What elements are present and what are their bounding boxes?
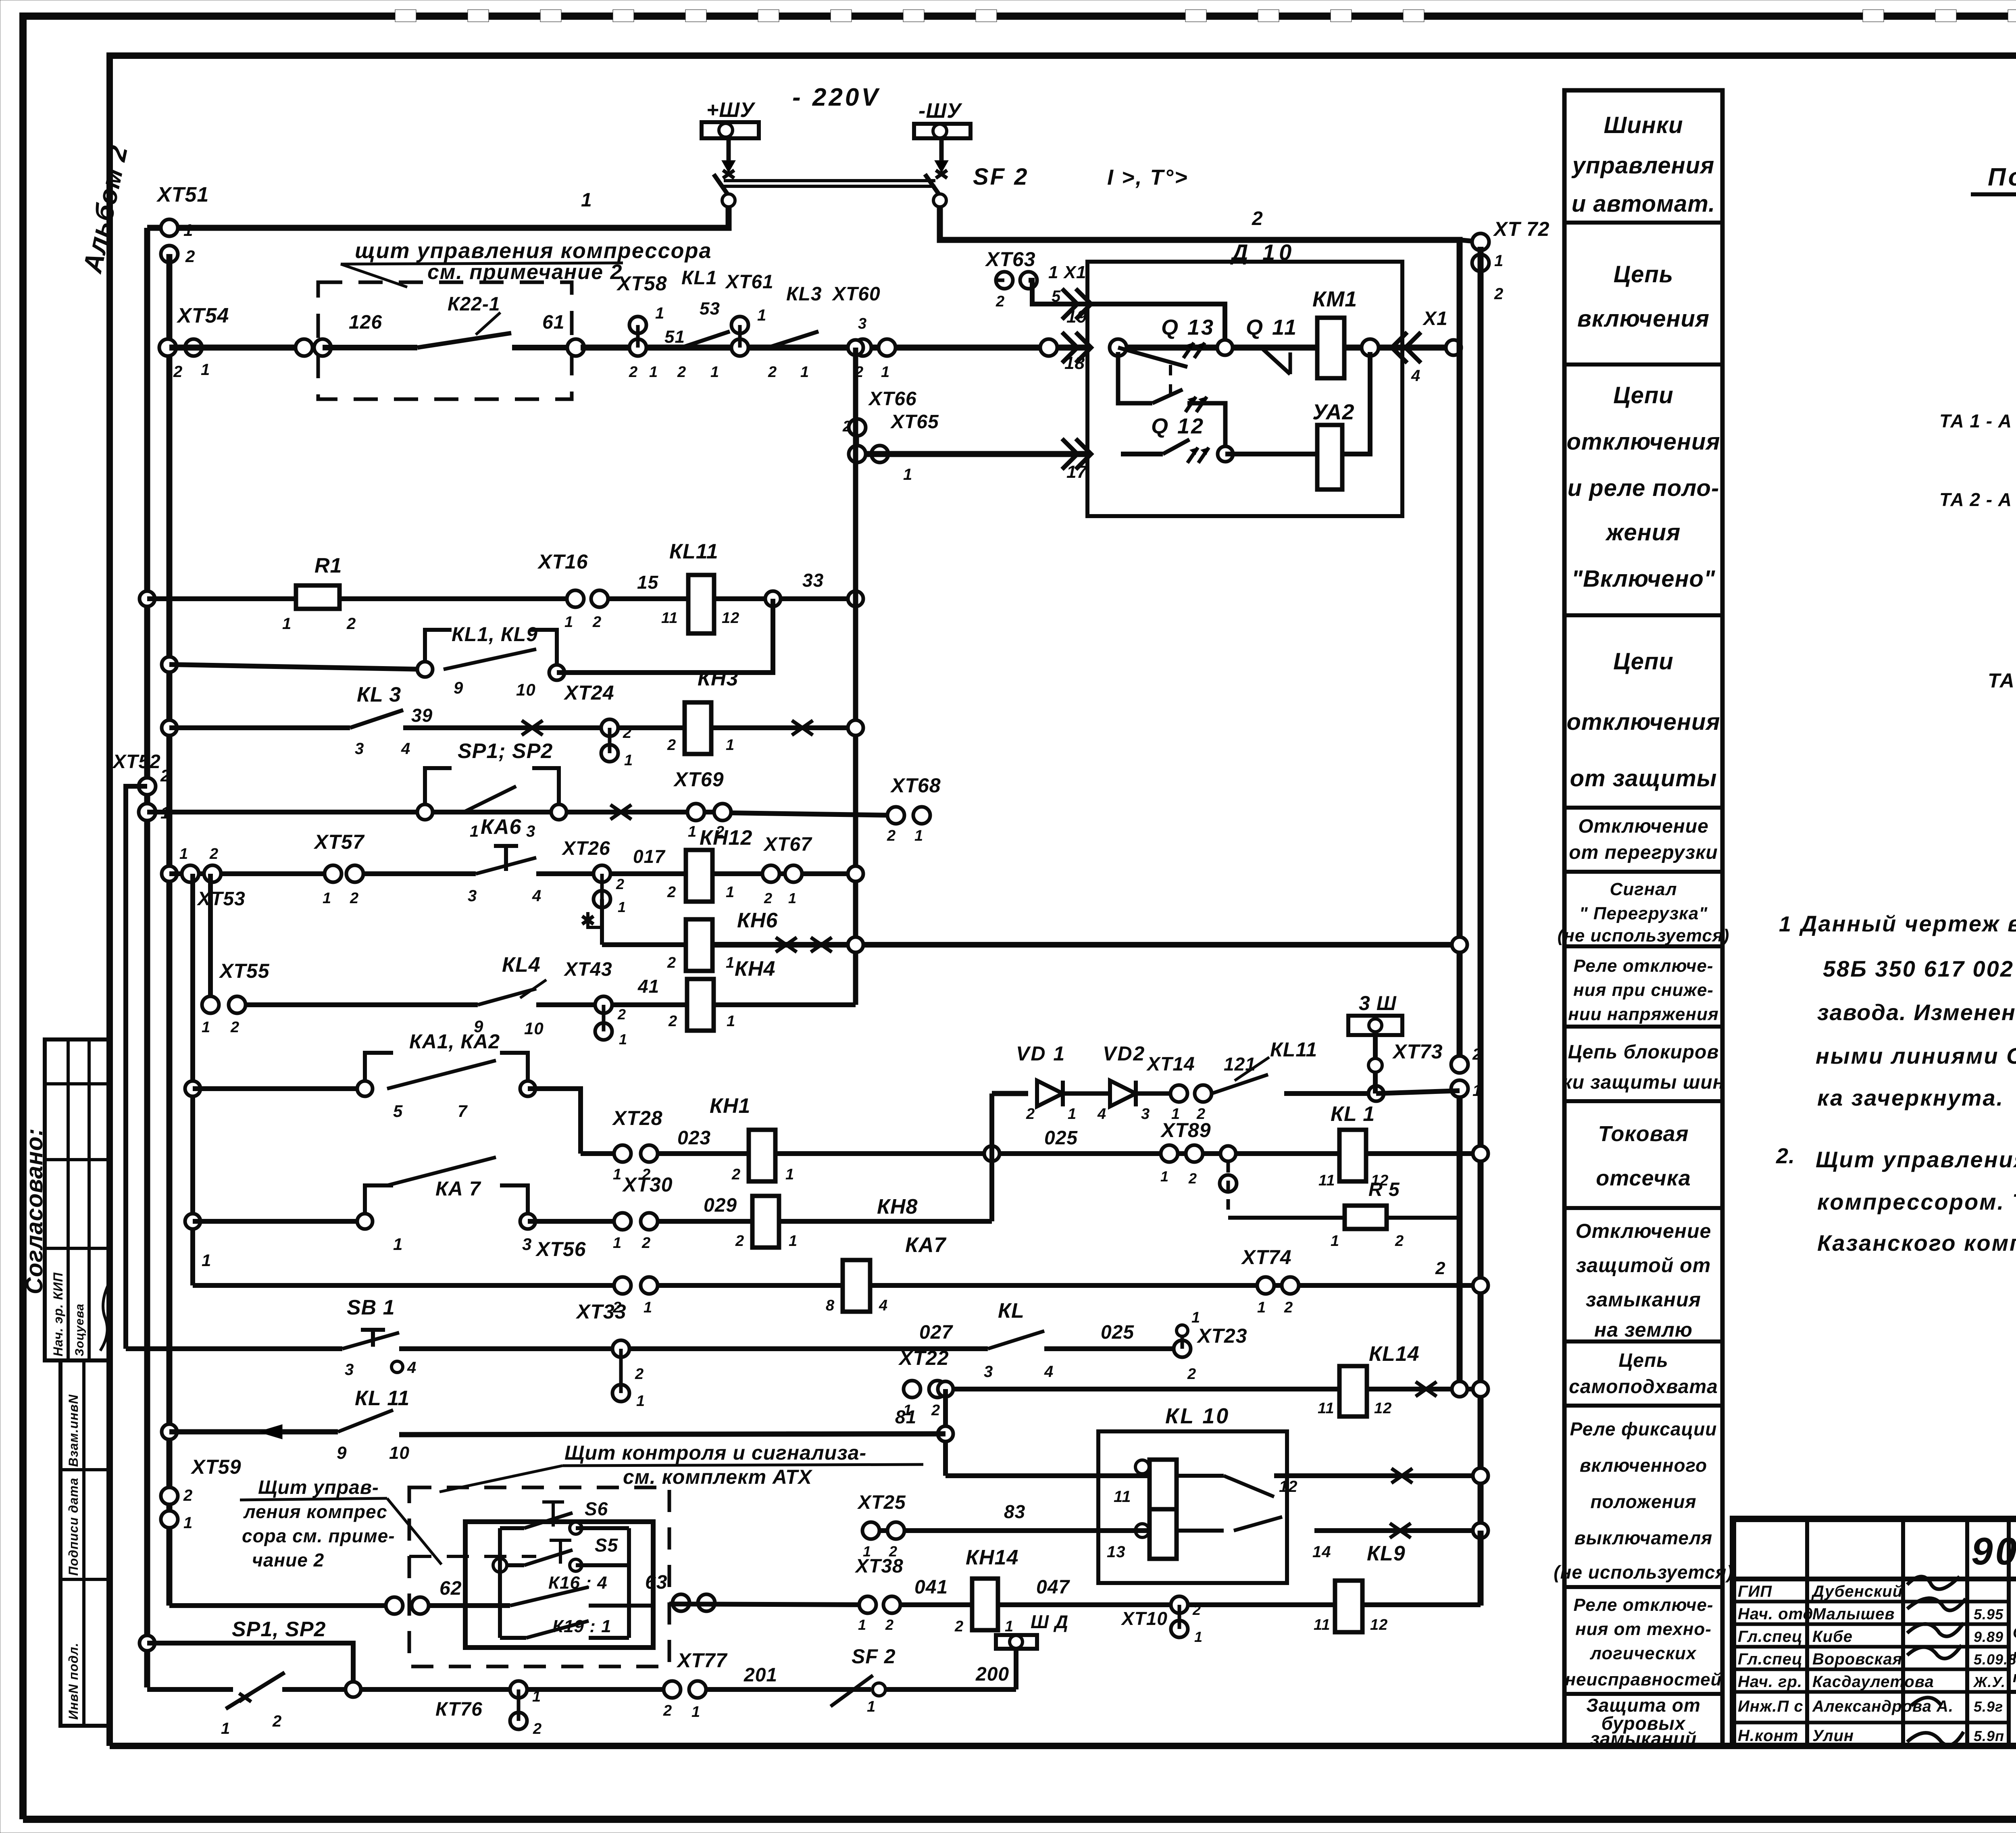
- svg-text:2: 2: [1026, 1106, 1035, 1123]
- svg-text:сора см. приме-: сора см. приме-: [242, 1525, 395, 1546]
- svg-text:1: 1: [1779, 912, 1791, 936]
- svg-text:Цепи: Цепи: [1613, 648, 1673, 675]
- svg-text:1: 1: [202, 1019, 210, 1036]
- svg-text:2: 2: [842, 418, 852, 435]
- svg-text:Цепи: Цепи: [1613, 382, 1673, 408]
- svg-text:R1: R1: [314, 554, 342, 577]
- wire loop row: [169, 664, 425, 669]
- svg-text:Кибе: Кибе: [1812, 1628, 1853, 1646]
- svg-text:81: 81: [895, 1406, 916, 1427]
- bus +ШУ box: [702, 122, 759, 138]
- svg-text:11: 11: [1114, 1488, 1131, 1506]
- svg-text:1: 1: [613, 1166, 622, 1183]
- wire УА2 to X1 row: [1225, 452, 1317, 456]
- svg-text:1: 1: [789, 1233, 798, 1250]
- svg-text:4: 4: [1411, 367, 1420, 385]
- wire to XT28 step: [528, 1089, 581, 1154]
- bus L1 (x=365): [144, 228, 150, 1687]
- svg-text:SF 2: SF 2: [973, 164, 1029, 190]
- svg-text:ХТ56: ХТ56: [535, 1238, 586, 1260]
- drop VD/KH rows vertical: [989, 1094, 994, 1221]
- bottom wire row: [147, 1687, 233, 1692]
- svg-text:КН4: КН4: [735, 957, 775, 981]
- svg-text:от защиты: от защиты: [1570, 765, 1717, 792]
- wire KH1 row to bus B: [775, 1151, 1481, 1156]
- svg-text:3: 3: [468, 887, 477, 905]
- svg-text:17: 17: [1066, 462, 1087, 482]
- svg-text:2: 2: [1187, 1366, 1196, 1383]
- svg-text:отключения: отключения: [1566, 709, 1720, 735]
- junction SP1,SP2 bottom: [140, 1635, 155, 1651]
- svg-text:1: 1: [1194, 1629, 1203, 1645]
- terminal 63: [673, 1594, 689, 1611]
- svg-text:КА1, КА2: КА1, КА2: [409, 1030, 500, 1053]
- svg-text:1: 1: [1171, 1106, 1180, 1123]
- svg-text:ХТ68: ХТ68: [890, 774, 941, 797]
- breaker SF2 right blade: [925, 174, 940, 196]
- svg-text:12: 12: [1370, 1616, 1388, 1633]
- loop wire to KL11 row: [557, 599, 773, 673]
- svg-text:12: 12: [1374, 1400, 1392, 1417]
- auxiliary Q13 lower pole: [1118, 352, 1152, 403]
- svg-text:КА7: КА7: [905, 1233, 947, 1257]
- svg-text:1: 1: [1160, 1168, 1169, 1185]
- svg-text:3: 3: [522, 1235, 532, 1254]
- wire 19 into connector X1:5: [1029, 280, 1225, 340]
- solid box S contacts: [465, 1522, 653, 1648]
- svg-text:3: 3: [1141, 1106, 1150, 1123]
- svg-text:3: 3: [526, 823, 535, 840]
- svg-text:КН12: КН12: [700, 826, 752, 850]
- svg-text:10: 10: [524, 1019, 544, 1038]
- svg-text:положения: положения: [1590, 1491, 1696, 1512]
- KL10 upper contact row: [946, 1473, 1150, 1478]
- svg-text:Цепь: Цепь: [1614, 261, 1673, 287]
- svg-text:отключения: отключения: [1566, 429, 1720, 455]
- svg-text:2: 2: [1196, 1106, 1206, 1123]
- junction bus M1 top: [848, 340, 863, 355]
- svg-text:Сигнал: Сигнал: [1610, 879, 1677, 899]
- svg-text:51: 51: [664, 327, 685, 347]
- svg-text:1: 1: [726, 884, 735, 901]
- svg-text:ХТ33: ХТ33: [575, 1300, 627, 1323]
- svg-text:ки защиты шин: ки защиты шин: [1562, 1072, 1724, 1093]
- svg-text:Шинки: Шинки: [1604, 112, 1683, 138]
- left stamp lower box: [60, 1360, 110, 1726]
- title block horizontals: [1733, 1577, 2016, 1581]
- svg-text:Инж.П с: Инж.П с: [1738, 1698, 1804, 1715]
- svg-text:Реле отключе-: Реле отключе-: [1573, 1595, 1713, 1615]
- svg-text:61: 61: [542, 312, 564, 333]
- svg-text:1: 1: [618, 899, 626, 915]
- function column frame: [1564, 90, 1722, 1746]
- svg-text:ХТ65: ХТ65: [890, 411, 939, 433]
- svg-text:ХТ63: ХТ63: [985, 248, 1036, 271]
- svg-text:14: 14: [1312, 1543, 1331, 1561]
- svg-text:ХТ74: ХТ74: [1241, 1246, 1292, 1269]
- svg-text:2: 2: [731, 1166, 741, 1183]
- svg-text:11: 11: [1318, 1172, 1335, 1189]
- terminal 62: [386, 1597, 403, 1614]
- svg-text:завода. Изменения типовой схем: завода. Изменения типовой схемы показаны…: [1817, 1000, 2016, 1025]
- svg-text:3 Ш: 3 Ш: [1359, 992, 1397, 1014]
- svg-text:КН1: КН1: [710, 1094, 750, 1118]
- svg-text:ХТ51: ХТ51: [156, 183, 209, 206]
- wire KH6 to bus A: [712, 942, 1460, 948]
- svg-text:ХТ55: ХТ55: [219, 960, 270, 982]
- svg-text:Воровская: Воровская: [1812, 1650, 1902, 1668]
- svg-text:1: 1: [323, 890, 331, 907]
- svg-text:1: 1: [788, 890, 797, 906]
- svg-text:4: 4: [532, 887, 541, 905]
- svg-text:см. комплект АТХ: см. комплект АТХ: [623, 1466, 813, 1488]
- svg-text:2: 2: [668, 1013, 677, 1030]
- svg-text:ХТ59: ХТ59: [190, 1456, 242, 1478]
- svg-text:1: 1: [726, 737, 735, 754]
- svg-text:"Включено": "Включено": [1572, 566, 1716, 592]
- svg-text:ХТ58: ХТ58: [616, 272, 667, 295]
- svg-text:121: 121: [1224, 1054, 1256, 1075]
- wire 2: [940, 207, 1460, 282]
- wire SP1,SP2 bottom: [147, 1643, 353, 1689]
- svg-text:1: 1: [757, 306, 766, 324]
- svg-text:Поясняющая схема: Поясняющая схема: [1988, 163, 2016, 191]
- svg-text:1: 1: [710, 364, 719, 381]
- wire XT26 stub to KH6 row: [600, 899, 604, 945]
- svg-text:ХТ38: ХТ38: [854, 1556, 904, 1577]
- svg-text:Улин: Улин: [1812, 1727, 1854, 1745]
- svg-text:КL 11: КL 11: [355, 1387, 410, 1410]
- svg-text:ХТ67: ХТ67: [763, 834, 812, 855]
- svg-text:Ш Д: Ш Д: [1031, 1611, 1068, 1632]
- svg-text:+ШУ: +ШУ: [706, 98, 756, 122]
- svg-text:ХТ24: ХТ24: [563, 681, 614, 704]
- svg-text:2: 2: [667, 954, 676, 971]
- svg-text:126: 126: [349, 312, 382, 333]
- svg-text:и реле поло-: и реле поло-: [1568, 475, 1720, 501]
- svg-text:025: 025: [1101, 1322, 1134, 1343]
- junction: [185, 1081, 200, 1096]
- svg-text:SF 2: SF 2: [852, 1645, 896, 1668]
- junction on L1: [140, 591, 155, 606]
- svg-text:1: 1: [613, 1235, 622, 1252]
- svg-text:5.9г: 5.9г: [1974, 1698, 2003, 1715]
- svg-text:4: 4: [407, 1359, 417, 1377]
- svg-text:К22-1: К22-1: [448, 294, 500, 315]
- svg-text:КL4: КL4: [502, 953, 541, 977]
- svg-text:047: 047: [1036, 1577, 1070, 1598]
- svg-text:ХТ73: ХТ73: [1392, 1040, 1443, 1063]
- svg-text:2: 2: [667, 884, 676, 901]
- svg-text:КН3: КН3: [698, 667, 738, 690]
- svg-text:ХТ22: ХТ22: [898, 1347, 949, 1369]
- bus M1 vertical: [853, 348, 858, 1005]
- svg-text:ными линиями Снимаемая в св: ными линиями Снимаемая в связи с этим пр…: [1816, 1043, 2016, 1069]
- control panel dashed box K22-1: [318, 282, 572, 399]
- svg-text:КА6: КА6: [481, 815, 522, 839]
- svg-text:отсечка: отсечка: [1596, 1166, 1691, 1190]
- svg-text:КL 3: КL 3: [357, 683, 401, 706]
- terminal XT72: [1460, 240, 1481, 242]
- svg-text:2: 2: [1494, 285, 1504, 303]
- svg-text:ХТ53: ХТ53: [196, 888, 246, 910]
- svg-text:ХТ57: ХТ57: [313, 831, 365, 853]
- relay KL10 box: [1098, 1431, 1287, 1583]
- svg-text:ХТ52: ХТ52: [112, 751, 161, 773]
- svg-text:2: 2: [663, 1702, 672, 1719]
- svg-text:Реле фиксации: Реле фиксации: [1570, 1418, 1717, 1439]
- svg-text:2: 2: [209, 846, 219, 862]
- svg-text:1: 1: [727, 1013, 735, 1030]
- svg-text:1: 1: [581, 190, 592, 211]
- svg-text:1: 1: [867, 1698, 876, 1715]
- svg-text:включенного: включенного: [1580, 1455, 1707, 1476]
- svg-text:19: 19: [1066, 307, 1087, 327]
- svg-text:1: 1: [619, 1031, 627, 1048]
- svg-text:Ж.У.: Ж.У.: [1973, 1674, 2006, 1690]
- svg-text:2: 2: [1192, 1602, 1201, 1618]
- bus B vertical: [1478, 247, 1484, 1606]
- svg-text:от перегрузки: от перегрузки: [1569, 842, 1718, 863]
- svg-text:ХТ43: ХТ43: [563, 959, 612, 980]
- svg-text:39: 39: [411, 705, 433, 726]
- svg-text:2: 2: [1435, 1258, 1445, 1278]
- corner from bus: [193, 1283, 623, 1288]
- svg-text:1: 1: [691, 1704, 700, 1721]
- svg-text:ния при сниже-: ния при сниже-: [1573, 980, 1714, 1000]
- svg-text:Гл.спец: Гл.спец: [1738, 1628, 1803, 1646]
- bus to XT55: [208, 874, 213, 1005]
- svg-text:029: 029: [704, 1195, 737, 1216]
- svg-text:2: 2: [677, 364, 686, 381]
- svg-text:КL9: КL9: [1367, 1542, 1406, 1565]
- svg-text:КА 7: КА 7: [435, 1177, 481, 1200]
- svg-text:1: 1: [1005, 1618, 1014, 1635]
- svg-text:2: 2: [641, 1235, 651, 1252]
- wire to XT58: [581, 345, 1087, 351]
- wire to XT68: [731, 813, 895, 815]
- svg-text:2: 2: [183, 1487, 193, 1504]
- svg-text:КL1, КL9: КL1, КL9: [452, 623, 538, 646]
- svg-text:ХТ23: ХТ23: [1196, 1325, 1248, 1347]
- svg-text:5: 5: [393, 1102, 403, 1121]
- svg-text:КН8: КН8: [877, 1195, 918, 1219]
- svg-text:2: 2: [1395, 1233, 1404, 1250]
- svg-text:ка зачеркнута.: ка зачеркнута.: [1817, 1085, 2004, 1110]
- svg-text:025: 025: [1044, 1127, 1078, 1149]
- svg-text:Щит контроля и сигнализа-: Щит контроля и сигнализа-: [564, 1441, 866, 1464]
- junction: [185, 1214, 200, 1229]
- svg-text:ХТ61: ХТ61: [725, 271, 774, 293]
- svg-text:2: 2: [931, 1402, 940, 1419]
- connector X1:4: [1362, 339, 1379, 356]
- svg-text:Гл.спец: Гл.спец: [1738, 1650, 1803, 1668]
- svg-text:ХТ26: ХТ26: [561, 838, 610, 859]
- svg-text:1: 1: [1472, 1082, 1482, 1100]
- svg-text:1: 1: [688, 823, 697, 840]
- svg-text:2: 2: [230, 1019, 240, 1036]
- svg-text:9.89: 9.89: [1974, 1629, 2004, 1645]
- svg-text:1: 1: [393, 1235, 403, 1254]
- svg-text:КL14: КL14: [1369, 1342, 1420, 1366]
- svg-text:и автомат.: и автомат.: [1572, 191, 1715, 217]
- svg-text:11: 11: [661, 610, 678, 627]
- svg-text:КL1: КL1: [681, 267, 717, 289]
- svg-text:2: 2: [768, 364, 777, 381]
- svg-text:1: 1: [221, 1720, 230, 1737]
- svg-text:КН6: КН6: [737, 909, 778, 932]
- wire SP1 SP2 row: [147, 810, 723, 814]
- svg-text:КL 1: КL 1: [1331, 1102, 1375, 1126]
- bus to KA rows: [190, 874, 195, 1285]
- vertical link in S box: [498, 1528, 502, 1638]
- svg-text:ХТ66: ХТ66: [868, 388, 917, 410]
- svg-text:ления компрес: ления компрес: [243, 1501, 387, 1522]
- svg-text:(не используется): (не используется): [1558, 926, 1730, 946]
- svg-text:" Перегрузка": " Перегрузка": [1579, 904, 1708, 923]
- bus B bottom corner: [1478, 1531, 1484, 1605]
- svg-text:Малышев: Малышев: [1812, 1605, 1895, 1623]
- svg-text:1: 1: [201, 361, 210, 379]
- svg-text:1: 1: [636, 1393, 645, 1410]
- svg-text:Отключение: Отключение: [1578, 816, 1709, 837]
- svg-text:1: 1: [858, 1616, 866, 1633]
- svg-text:КL 10: КL 10: [1165, 1404, 1230, 1428]
- svg-text:Щит управ-: Щит управ-: [258, 1477, 379, 1498]
- svg-text:SР1; SР2: SР1; SР2: [458, 739, 553, 763]
- junction on L2: [162, 720, 177, 735]
- svg-text:3: 3: [345, 1361, 354, 1379]
- svg-text:1: 1: [914, 827, 923, 844]
- svg-text:ХТ 72: ХТ 72: [1493, 218, 1549, 240]
- bus L2 (x=420): [167, 254, 173, 1606]
- svg-text:R 5: R 5: [1368, 1179, 1400, 1200]
- svg-text:1: 1: [785, 1166, 794, 1183]
- svg-text:2: 2: [735, 1233, 744, 1250]
- svg-text:1: 1: [881, 364, 890, 381]
- svg-text:защитой от: защитой от: [1576, 1254, 1711, 1277]
- svg-text:управления: управления: [1571, 152, 1715, 179]
- svg-text:Подписи дата: Подписи дата: [66, 1478, 81, 1576]
- svg-text:2: 2: [533, 1721, 542, 1737]
- svg-text:027: 027: [919, 1322, 953, 1343]
- svg-text:1: 1: [1068, 1106, 1077, 1123]
- svg-text:Нач. гр.: Нач. гр.: [1738, 1673, 1802, 1691]
- svg-text:3: 3: [355, 740, 364, 758]
- svg-text:включения: включения: [1577, 306, 1710, 332]
- svg-text:2: 2: [635, 1366, 644, 1383]
- svg-text:11: 11: [1314, 1616, 1330, 1633]
- svg-text:выключателя: выключателя: [1574, 1527, 1713, 1548]
- svg-text:1: 1: [726, 954, 735, 971]
- svg-text:ХТ60: ХТ60: [831, 283, 881, 305]
- svg-text:- 220V: - 220V: [792, 83, 881, 111]
- svg-text:КМ1: КМ1: [1312, 287, 1357, 311]
- crossed-wire arrow: [258, 1425, 282, 1439]
- svg-text:VD 1: VD 1: [1016, 1042, 1066, 1065]
- svg-text:1: 1: [649, 364, 658, 381]
- svg-text:1: 1: [202, 1251, 211, 1270]
- svg-text:ТА 2 - А: ТА 2 - А: [1939, 489, 2012, 510]
- svg-text:Нач. отд: Нач. отд: [1738, 1605, 1813, 1623]
- svg-text:041: 041: [914, 1577, 948, 1598]
- KL10 coil lower: [1150, 1509, 1177, 1559]
- svg-text:Q 11: Q 11: [1246, 315, 1298, 340]
- svg-text:12: 12: [722, 610, 739, 627]
- wire from bus L0: [126, 1346, 342, 1351]
- svg-text:7: 7: [458, 1102, 468, 1121]
- svg-text:Д 10: Д 10: [1230, 240, 1295, 265]
- svg-text:2: 2: [1284, 1299, 1293, 1316]
- svg-text:ХТ16: ХТ16: [537, 550, 588, 573]
- KL10 coil upper: [1150, 1460, 1177, 1509]
- svg-text:КL3: КL3: [786, 283, 822, 305]
- svg-text:ИнвN подл.: ИнвN подл.: [66, 1643, 81, 1720]
- svg-text:ния от техно-: ния от техно-: [1575, 1619, 1712, 1639]
- title block outline: [1733, 1519, 2016, 1746]
- svg-text:КL11: КL11: [669, 540, 719, 563]
- svg-text:Казанского компрессорного зав: Казанского компрессорного завода.: [1817, 1230, 2016, 1256]
- fuse mark left pole: [727, 138, 731, 161]
- svg-text:1: 1: [644, 1299, 652, 1316]
- svg-text:КТ76: КТ76: [435, 1699, 483, 1720]
- svg-text:33: 33: [802, 570, 824, 591]
- svg-text:904 - 1- 83.89: 904 - 1- 83.89: [1971, 1530, 2016, 1573]
- svg-text:I >, Т°>: I >, Т°>: [1107, 165, 1189, 190]
- svg-text:УА2: УА2: [1312, 400, 1355, 424]
- svg-text:самоподхвата: самоподхвата: [1569, 1376, 1718, 1398]
- svg-text:2: 2: [617, 1006, 626, 1023]
- junction on L2: [162, 866, 177, 881]
- svg-text:8: 8: [826, 1297, 835, 1314]
- svg-text:4: 4: [879, 1297, 888, 1314]
- svg-text:2: 2: [629, 364, 638, 381]
- svg-text:3: 3: [858, 315, 867, 332]
- svg-text:4: 4: [1044, 1363, 1054, 1381]
- svg-text:Х1: Х1: [1422, 308, 1448, 329]
- connector X1:18: [1076, 332, 1091, 363]
- svg-text:ХТ28: ХТ28: [612, 1107, 663, 1129]
- svg-text:1 Х1: 1 Х1: [1048, 262, 1087, 282]
- svg-text:Данный чертеж выполнен на осно: Данный чертеж выполнен на основании черт…: [1799, 911, 2016, 936]
- svg-text:2: 2: [346, 615, 356, 633]
- svg-text:9: 9: [337, 1443, 347, 1463]
- wire R1 row: [147, 596, 296, 601]
- svg-text:ТА 1 - А: ТА 1 - А: [1939, 410, 2012, 431]
- svg-text:5.95: 5.95: [1974, 1606, 2004, 1623]
- svg-text:58Б 350 617 002 запорожского: 58Б 350 617 002 запорожского трансформат…: [1823, 956, 2016, 981]
- svg-text:2: 2: [996, 293, 1005, 310]
- svg-text:5.9п: 5.9п: [1974, 1728, 2004, 1744]
- corner from bus L2: [169, 1603, 394, 1608]
- bus -ШУ box: [914, 124, 971, 138]
- wire 1: [147, 207, 729, 228]
- svg-text:Дубенский: Дубенский: [1811, 1583, 1903, 1600]
- svg-text:компрессором. Техдокументация: компрессором. Техдокументация 2 700 095 …: [1817, 1189, 2016, 1214]
- svg-text:2: 2: [1188, 1170, 1197, 1187]
- wire 18 row: [1040, 339, 1057, 356]
- svg-text:83: 83: [1004, 1501, 1025, 1522]
- svg-text:1: 1: [183, 1514, 193, 1532]
- svg-text:1: 1: [1494, 252, 1504, 270]
- svg-text:S5: S5: [595, 1535, 619, 1556]
- svg-text:на землю: на землю: [1594, 1319, 1693, 1341]
- breaker SF2 mechanical tie: [724, 179, 935, 182]
- wire to XT38: [669, 1604, 868, 1605]
- svg-text:ХТ14: ХТ14: [1146, 1054, 1195, 1075]
- junction on L2: [162, 1424, 177, 1439]
- svg-text:1: 1: [183, 221, 193, 240]
